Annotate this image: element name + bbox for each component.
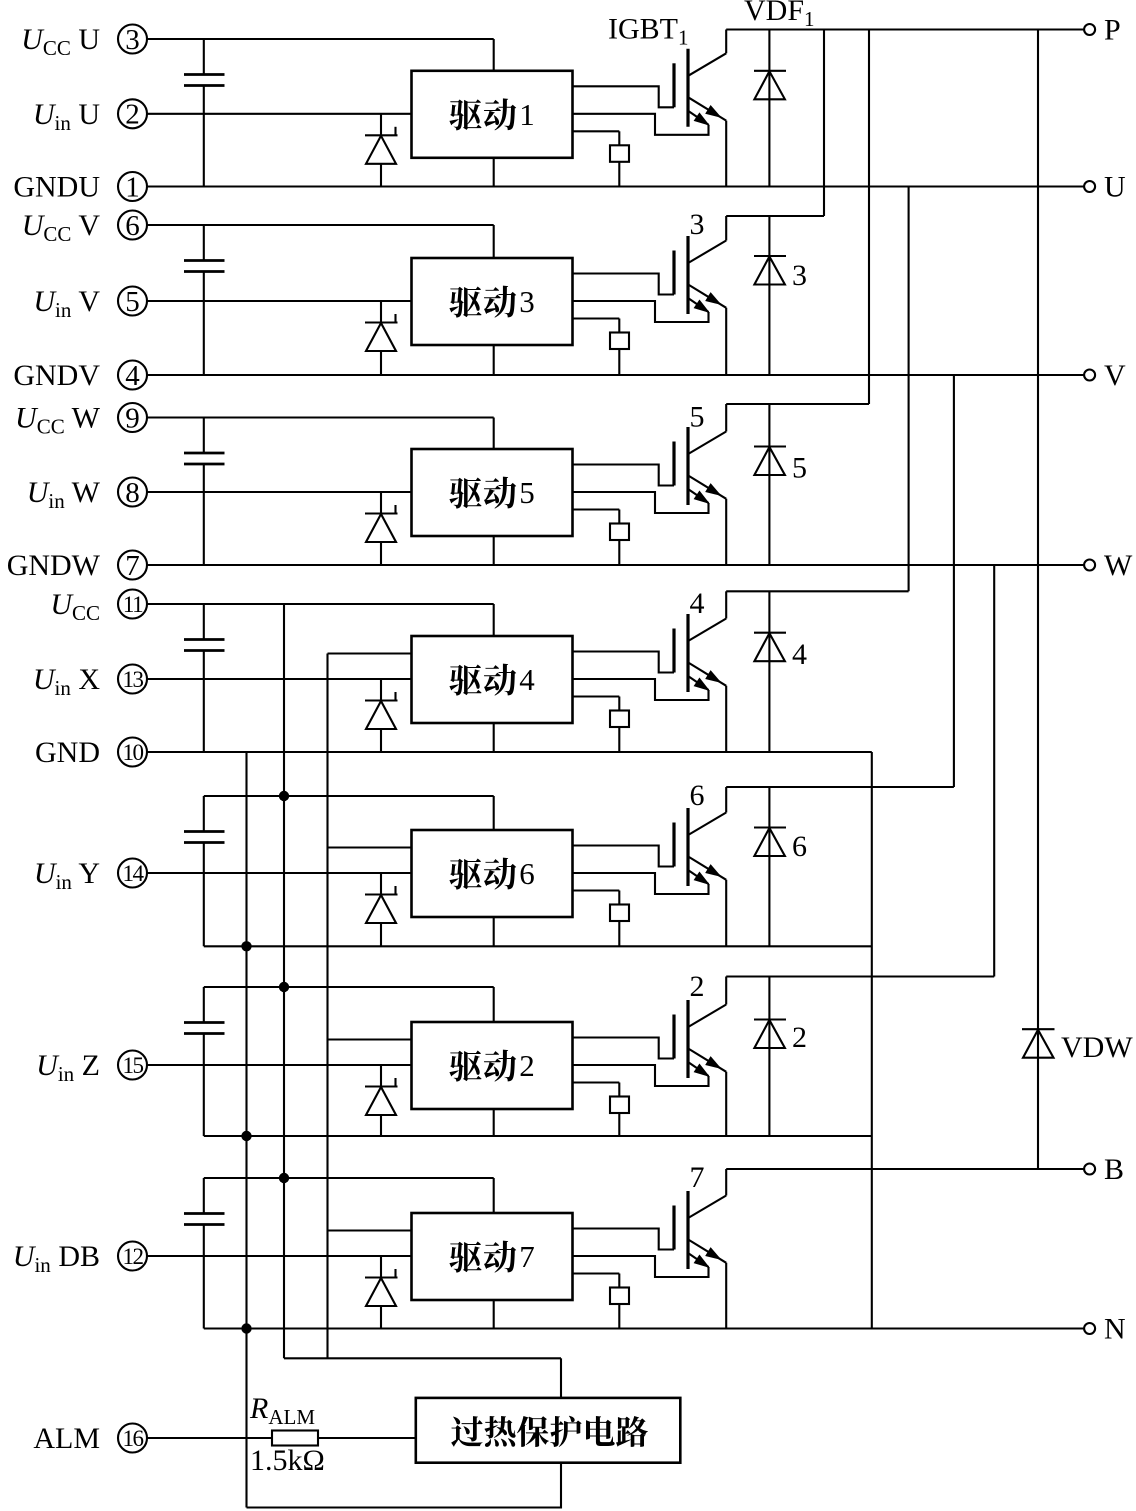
svg-text:2: 2 — [125, 99, 140, 131]
svg-text:2: 2 — [690, 970, 705, 1003]
wire driver 7 gate output — [573, 1229, 675, 1250]
wire driver 5 gnd — [493, 536, 495, 565]
wire driver 5 Ucc entry — [493, 418, 495, 450]
junction GND bus Y — [241, 941, 251, 951]
svg-text:3: 3 — [125, 24, 140, 56]
junction GND bus Z — [241, 1131, 251, 1141]
svg-text:15: 15 — [123, 1053, 144, 1078]
wire driver 3 gnd — [493, 345, 495, 375]
pin 3 terminal circle — [118, 24, 147, 56]
wire U_in X to driver 4 — [147, 678, 412, 680]
svg-text:2: 2 — [519, 1048, 535, 1083]
wire U_in DB to driver 7 — [147, 1255, 412, 1257]
svg-text:V: V — [1104, 359, 1126, 392]
pin 5 terminal circle — [118, 286, 147, 318]
terminal W — [1084, 549, 1133, 582]
svg-text:1: 1 — [519, 97, 535, 132]
pin 1 terminal circle — [118, 171, 147, 203]
svg-text:VDW: VDW — [1061, 1031, 1133, 1064]
wire Ucc tap to driver 6 top — [204, 795, 494, 797]
svg-text:4: 4 — [519, 662, 535, 697]
wire driver 2 sense — [573, 1081, 620, 1083]
driver block U7 驱动 7 — [412, 1213, 573, 1300]
node P rail — [726, 28, 1084, 30]
zener diode ZU — [365, 114, 398, 187]
pin 10 terminal circle — [118, 738, 147, 767]
capacitor CV — [184, 225, 225, 375]
pin 16 terminal circle — [118, 1424, 147, 1453]
node VT2 emitter rail — [204, 1135, 872, 1137]
wire driver 4 gate output — [573, 652, 675, 673]
svg-text:6: 6 — [792, 830, 807, 863]
freewheel diode VDF3 — [754, 216, 786, 375]
svg-text:9: 9 — [125, 402, 140, 434]
pin 9 terminal circle — [118, 402, 147, 434]
zener diode ZX — [365, 679, 398, 752]
svg-text:5: 5 — [125, 286, 140, 318]
wire U_in Y to driver 6 — [147, 872, 412, 874]
resistor R_ALM — [272, 1431, 318, 1446]
sense resistor Z — [610, 1083, 629, 1137]
wire Ucc V pin to driver 3 top — [147, 224, 494, 226]
freewheel diode VDF1 — [754, 30, 786, 187]
wire driver 2 emitter return — [573, 1065, 709, 1086]
wire VT3 collector jog — [726, 215, 824, 217]
wire VT4 collector to U rail — [908, 187, 910, 592]
wire U_in W to driver 5 — [147, 491, 412, 493]
wire driver 5 gate output — [573, 465, 675, 486]
wire VT2 collector to W rail — [993, 565, 995, 977]
svg-text:GNDW: GNDW — [7, 549, 101, 582]
wire driver 6 emitter return — [573, 873, 709, 894]
freewheel diode VDF6 — [754, 787, 786, 946]
wire driver 4 sense — [573, 695, 620, 697]
wire VDW bus P to B — [1037, 30, 1039, 1170]
svg-text:10: 10 — [123, 740, 144, 765]
svg-text:1.5kΩ: 1.5kΩ — [250, 1444, 325, 1477]
wire driver 1 sense — [573, 130, 620, 132]
wire fault bus to driver 4 — [328, 652, 412, 654]
svg-text:W: W — [1104, 549, 1133, 582]
pin 6 terminal circle — [118, 210, 147, 242]
driver block U4 驱动 4 — [412, 636, 573, 723]
freewheel diode VDF2 — [754, 977, 786, 1137]
svg-text:7: 7 — [125, 550, 140, 582]
svg-text:B: B — [1104, 1153, 1124, 1186]
svg-text:6: 6 — [125, 210, 140, 242]
capacitor CY — [184, 796, 225, 946]
wire U_in V to driver 3 — [147, 300, 412, 302]
node V rail — [147, 374, 1084, 376]
driver block U3 驱动 3 — [412, 258, 573, 345]
svg-text:5: 5 — [690, 401, 705, 434]
junction Ucc bus tap Z — [279, 982, 289, 992]
brake diode VDW — [1022, 1029, 1055, 1058]
wire Ucc to protection top — [560, 1358, 562, 1398]
wire driver 3 sense — [573, 317, 620, 319]
zener diode ZZ — [365, 1065, 398, 1136]
wire N bus — [871, 752, 873, 1329]
pin 8 terminal circle — [118, 477, 147, 509]
svg-text:U: U — [1104, 171, 1126, 204]
junction GND bus N rail — [241, 1323, 251, 1333]
transistor VT3 (IGBT) — [674, 216, 726, 375]
wire VT3 collector to P rail — [823, 30, 825, 217]
transistor VT7 (IGBT) — [674, 1169, 726, 1329]
wire Ucc tap to driver 2 top — [204, 986, 494, 988]
pin 15 terminal circle — [118, 1051, 147, 1080]
pin 11 terminal circle — [118, 590, 147, 619]
transistor VT5 (IGBT) — [674, 404, 726, 565]
wire driver 1 emitter return — [573, 114, 709, 135]
wire driver 4 emitter return — [573, 679, 709, 700]
pin 14 terminal circle — [118, 859, 147, 888]
wire driver 2 gnd — [493, 1109, 495, 1136]
wire GND bus — [245, 752, 247, 1508]
svg-text:4: 4 — [690, 587, 705, 620]
driver block U6 驱动 6 — [412, 830, 573, 917]
wire driver 7 gnd — [493, 1300, 495, 1329]
capacitor CZ — [184, 987, 225, 1136]
wire U_in U to driver 1 — [147, 113, 412, 115]
wire driver 1 gate output — [573, 86, 675, 107]
svg-text:N: N — [1104, 1313, 1126, 1346]
wire fault bus to driver 6 — [328, 846, 412, 848]
svg-text:6: 6 — [690, 779, 705, 812]
svg-text:6: 6 — [519, 856, 535, 891]
node U rail — [147, 185, 1084, 187]
pin 4 terminal circle — [118, 360, 147, 392]
terminal P — [1084, 14, 1121, 47]
junction Ucc bus tap DB — [279, 1173, 289, 1183]
wire VT5 collector to P rail — [868, 30, 870, 405]
node VT6 emitter rail — [204, 945, 872, 947]
overheat protection block 过热保护电路 — [416, 1398, 681, 1463]
svg-text:13: 13 — [123, 667, 144, 692]
svg-text:GNDU: GNDU — [13, 171, 100, 204]
wire driver 1 Ucc entry — [493, 39, 495, 71]
wire U_in Z to driver 2 — [147, 1064, 412, 1066]
capacitor CW — [184, 418, 225, 566]
svg-text:8: 8 — [125, 477, 140, 509]
svg-text:16: 16 — [123, 1426, 144, 1451]
pin 2 terminal circle — [118, 99, 147, 131]
wire VT6 collector jog — [726, 786, 954, 788]
pin 13 terminal circle — [118, 665, 147, 694]
svg-text:12: 12 — [123, 1244, 144, 1269]
node B rail — [726, 1168, 1084, 1170]
sense resistor DB — [610, 1274, 629, 1329]
sense resistor Y — [610, 891, 629, 947]
zener diode ZV — [365, 301, 398, 375]
wire driver 1 gnd — [493, 158, 495, 187]
wire driver 3 Ucc entry — [493, 225, 495, 258]
node N rail — [204, 1327, 1084, 1329]
terminal V — [1084, 359, 1126, 392]
wire Ucc tap to driver 7 top — [204, 1177, 494, 1179]
wire VT4 collector jog — [726, 590, 908, 592]
driver block U1 驱动 1 — [412, 71, 573, 158]
wire driver 7 sense — [573, 1272, 620, 1274]
wire driver 5 sense — [573, 508, 620, 510]
svg-text:IGBT1: IGBT1 — [608, 13, 689, 50]
svg-text:1: 1 — [125, 171, 140, 203]
zener diode ZW — [365, 492, 398, 565]
svg-text:11: 11 — [123, 592, 143, 617]
wire driver 6 gate output — [573, 846, 675, 867]
wire driver 3 gate output — [573, 274, 675, 295]
svg-text:3: 3 — [792, 259, 807, 292]
svg-text:4: 4 — [125, 360, 140, 392]
wire Ucc X pin to driver 4 top — [147, 603, 494, 605]
svg-text:3: 3 — [690, 208, 705, 241]
svg-text:2: 2 — [792, 1021, 807, 1054]
svg-text:GNDV: GNDV — [13, 359, 100, 392]
pin 12 terminal circle — [118, 1242, 147, 1271]
wire fault bus to driver 2 — [328, 1038, 412, 1040]
svg-text:Uin DB: Uin DB — [13, 1240, 100, 1277]
zener diode ZDB — [365, 1256, 398, 1329]
terminal U — [1084, 171, 1126, 204]
wire R_ALM to protection circuit — [318, 1437, 416, 1439]
svg-text:P: P — [1104, 14, 1121, 47]
wire VT2 collector jog — [726, 975, 994, 977]
transistor VT4 (IGBT) — [674, 591, 726, 752]
sense resistor X — [610, 697, 629, 753]
wire Ucc U pin to driver 1 top — [147, 38, 494, 40]
svg-text:5: 5 — [519, 475, 535, 510]
svg-text:14: 14 — [123, 861, 145, 886]
driver block U5 驱动 5 — [412, 449, 573, 536]
terminal N — [1084, 1313, 1126, 1346]
terminal B — [1084, 1153, 1124, 1186]
wire driver 7 emitter return — [573, 1256, 709, 1277]
wire fault bus — [326, 654, 328, 1359]
wire fault bus to driver 7 — [328, 1229, 412, 1231]
transistor VT6 (IGBT) — [674, 787, 726, 946]
wire Ucc bus to protection circuit — [284, 1357, 561, 1359]
wire driver 2 Ucc entry — [493, 987, 495, 1022]
node GND rail (VT4 emitter) — [147, 751, 872, 753]
wire driver 5 emitter return — [573, 492, 709, 513]
node W rail — [147, 564, 1084, 566]
svg-text:7: 7 — [690, 1161, 705, 1194]
sense resistor W — [610, 510, 629, 566]
capacitor CU — [184, 39, 225, 187]
sense resistor V — [610, 319, 629, 376]
wire driver 3 emitter return — [573, 301, 709, 322]
wire driver 7 Ucc entry — [493, 1178, 495, 1213]
transistor VT2 (IGBT) — [674, 977, 726, 1137]
wire protection bottom to GND bus — [247, 1463, 562, 1508]
wire driver 6 Ucc entry — [493, 796, 495, 830]
wire driver 6 gnd — [493, 917, 495, 946]
wire driver 6 sense — [573, 889, 620, 891]
svg-text:5: 5 — [792, 452, 807, 485]
wire ALM to R_ALM — [147, 1437, 272, 1439]
capacitor CX — [184, 604, 225, 752]
driver block U2 驱动 2 — [412, 1022, 573, 1109]
freewheel diode VDF5 — [754, 404, 786, 565]
pin 7 terminal circle — [118, 550, 147, 582]
wire driver 4 gnd — [493, 723, 495, 752]
capacitor CDB — [184, 1178, 225, 1329]
transistor VT1 (IGBT) — [674, 30, 726, 187]
wire Ucc W pin to driver 5 top — [147, 416, 494, 418]
wire driver 2 gate output — [573, 1038, 675, 1059]
wire Ucc bus — [283, 604, 285, 1358]
wire VT5 collector jog — [726, 403, 869, 405]
sense resistor U — [610, 131, 629, 186]
wire driver 4 Ucc entry — [493, 604, 495, 636]
svg-text:7: 7 — [519, 1239, 535, 1274]
freewheel diode VDF4 — [754, 591, 786, 752]
svg-text:ALM: ALM — [33, 1422, 100, 1455]
svg-text:VDF1: VDF1 — [744, 0, 815, 31]
wire VT6 collector to V rail — [953, 375, 955, 787]
junction Ucc bus tap Y — [279, 791, 289, 801]
svg-text:3: 3 — [519, 284, 535, 319]
zener diode ZY — [365, 873, 398, 946]
svg-text:4: 4 — [792, 638, 807, 671]
svg-text:GND: GND — [35, 736, 100, 769]
